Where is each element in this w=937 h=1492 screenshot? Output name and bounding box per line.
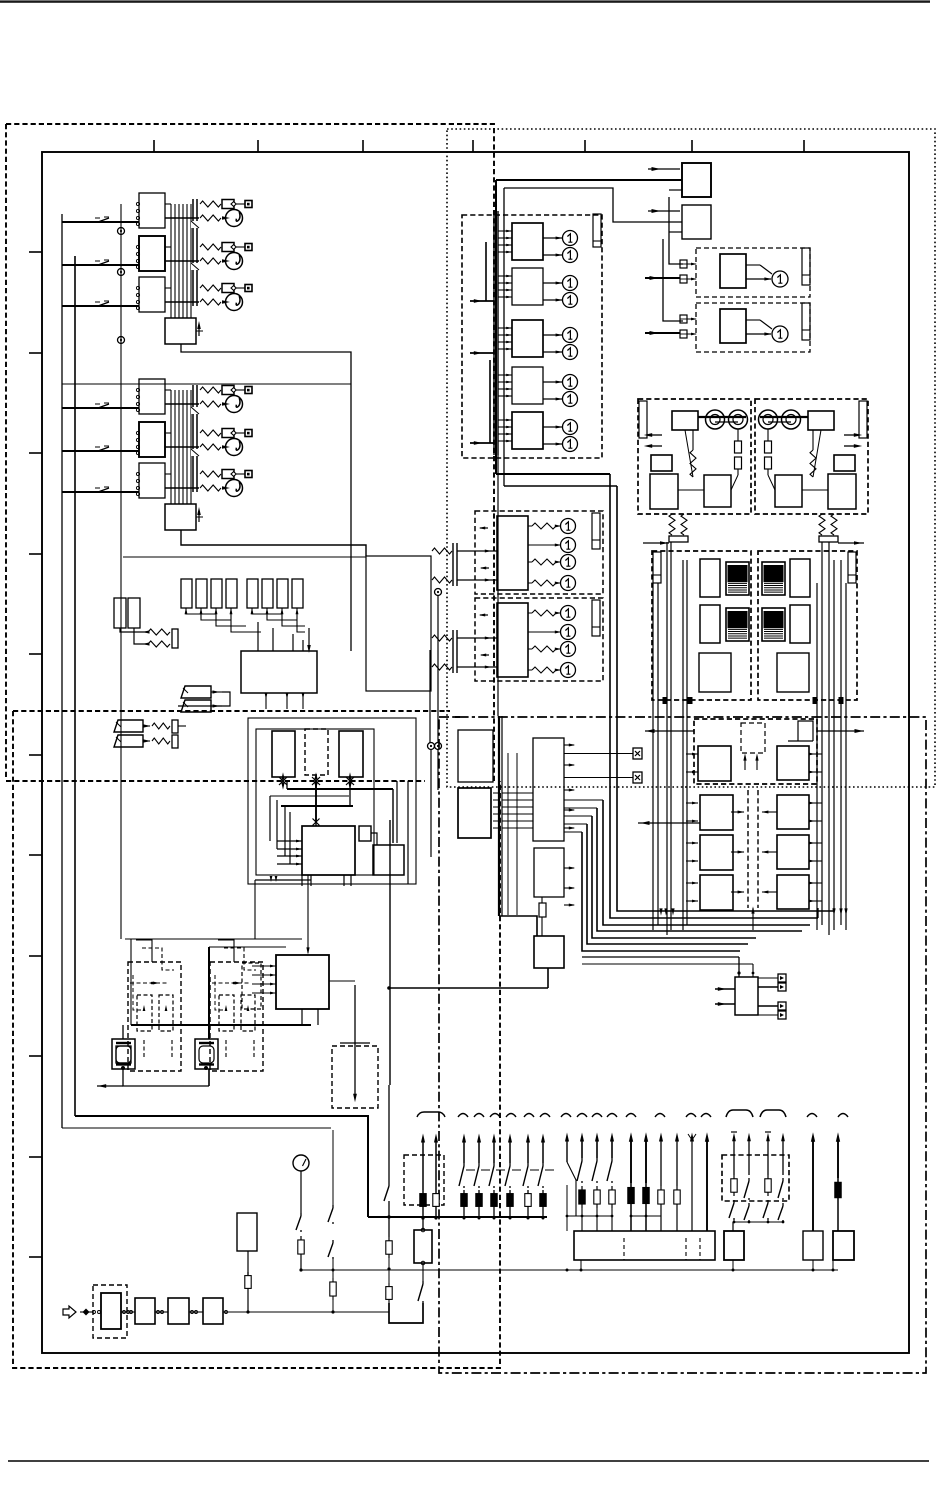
aux block risers [737,971,740,974]
feeder verticals right group [816,583,818,930]
weave junction marks [279,777,287,785]
comm indicator [772,326,788,342]
pointer arrow [198,511,200,522]
aux rect pair [114,598,126,628]
relay driver block row2 [139,422,165,457]
metering indicators [561,519,576,534]
panel meter row2 [226,253,243,270]
center out arrows [564,744,574,746]
terminal square row3 [245,471,252,478]
aux box 3 [803,1231,823,1260]
main return wire [389,987,548,989]
center block feeds [493,792,499,794]
aux resistor feeds [148,629,170,635]
fused switch column x567 [566,1140,568,1162]
arrow feed B [648,210,680,212]
meter resistor row2 [200,444,221,450]
metering input bars [452,543,454,586]
pointer arrow [198,325,200,336]
sweep tail lines [582,956,739,958]
motor field winding row1 [726,562,749,595]
aux box 4 [833,1231,854,1260]
relay logic dashed cluster [210,962,263,1071]
meter resistor row1 [200,401,221,407]
relay coil box row2 [222,429,234,438]
meter resistor row2 [200,258,221,264]
border tick marks left [29,251,42,253]
center block A [458,788,491,838]
relay driver block row3 [139,277,165,312]
plain column x692 [691,1140,693,1231]
metering terminal strip [592,600,600,636]
feed wire with contact row2 [62,264,139,266]
trunk riser [495,180,497,474]
panel meter row3 [226,480,243,497]
horn speaker pair upper [181,686,211,698]
motor field winding row1 [762,562,785,595]
left rail junction circles [118,228,125,235]
aux small box [651,455,672,471]
fuse elements [737,429,739,441]
aux small box [834,455,855,471]
interface block 1 [512,223,543,260]
sweep risers [833,908,835,911]
drop zigzag pair left [669,514,675,535]
pair axis arrows row3 [731,851,744,853]
interface indicators 3 [563,328,578,343]
comm terminal strip [802,303,810,340]
ladder chain 2 [332,1130,334,1205]
bus continuity run [497,455,499,716]
pair block right row2 [777,795,809,829]
chain-line enclosure (lower-right system) [439,717,926,1373]
contact bank rectangles [181,579,192,608]
metering block [497,603,528,677]
relay coil box row3 [222,284,234,293]
horn feed wires [178,692,230,706]
fused switch column x612 [611,1140,613,1158]
big spare enclosure [366,556,431,691]
bottom page rule [8,1460,929,1462]
dashed breaker box [404,1155,444,1205]
center resistor [539,903,546,917]
aux connectors [778,974,786,982]
panel meter row2 [226,439,243,456]
interface left stubs [485,242,487,301]
relay driver block row3 [139,463,165,498]
pair block left row1 [698,746,731,781]
master box B [682,205,711,239]
return arrow [97,1085,123,1087]
converter dashed box [638,399,751,514]
annunciator resistor row1a [200,387,221,393]
motor armature block row1 [700,559,720,597]
drop link bar right [819,536,838,542]
annunciator resistor row3a [200,471,221,477]
motor terminal strip [653,552,661,583]
pair block right row4 [777,875,809,909]
panel meter row1 [226,210,243,227]
down arrow into logic block [308,628,310,648]
second trunk [504,188,682,222]
long collector wire lower [301,1269,838,1271]
motor control block [777,653,809,692]
trunk wire to A [496,179,682,181]
annunciator resistor row3a [200,285,221,291]
junction circle pair [428,743,435,750]
annunciator resistor row2a [200,244,221,250]
comm feed arrow [645,277,680,279]
panel meter row3 [226,294,243,311]
comm feed arrow [645,332,680,334]
arrow drop into lower block [307,875,309,953]
metering flags [480,527,488,529]
relay coil box row1 [222,386,234,395]
interface indicators 5 [563,420,578,435]
sequencer block [276,955,329,1009]
comm terminal strip [802,248,810,285]
feeder arrow left [643,542,669,544]
surge resistor [810,450,816,477]
bus sweep bundle [617,486,834,911]
fused switch column x597 [596,1140,598,1158]
drop zigzag pair right [819,514,825,535]
feed wire with contact row1 [62,407,139,409]
filter block 2 [135,1298,155,1324]
comm dashed box [696,303,810,352]
left supply rail 2 [74,256,76,1116]
terminal strip column [192,385,194,492]
arc bracket 1 [726,1110,753,1117]
heavy feed elbow [75,1116,368,1217]
pair block left row4 [700,875,733,910]
interface block feeds 2 [498,275,512,277]
annunciator resistor row1a [200,201,221,207]
out arrows [648,434,662,436]
weave outer enclosure [248,718,416,884]
monitor feed trunk [208,947,210,1039]
output wires [165,473,171,475]
row feed stubs right [809,753,822,755]
drop link bar left [669,536,688,542]
annunciator resistor row2a [200,430,221,436]
terminal square row3 [245,285,252,292]
monitor drop 1 [122,1025,124,1039]
pocket drop arrow [354,1046,356,1098]
block feed verticals [257,622,259,651]
filter block 3 [168,1298,189,1324]
aux box 2 [724,1231,744,1260]
battery block [414,1230,432,1263]
crt monitor 1 [112,1039,135,1069]
pair block right row3 [777,835,809,869]
comm block [720,309,746,343]
mid bus bar [368,1216,547,1218]
motor control block [699,653,731,692]
long center drop wire [389,820,391,1085]
metering dashed box [475,598,603,681]
interface block feeds 3 [498,327,512,329]
output wires [165,287,171,289]
relay driver block row1 [139,193,165,228]
interface входные arrows [470,300,494,302]
weave to control wires [315,822,317,826]
sequencer to pocket wire [329,980,355,982]
logic block bottom pins [265,693,267,709]
terminal square row2 [245,430,252,437]
sequencer input stubs [252,965,276,967]
converter control box [808,411,834,430]
ladder chain 3 (main drop) [388,1085,390,1183]
interface block 3 [512,320,543,357]
traction motor dashed box [758,551,857,700]
metering dashed box [475,511,603,594]
sequencer side dashed rect [242,963,261,1009]
comm connectors [680,260,687,268]
motor field winding row2 [762,608,785,641]
motor field winding row2 [726,608,749,641]
fuse column x661 [660,1140,662,1186]
converter block 2 [704,475,731,507]
center block D [534,936,564,968]
chain output wire [248,1311,355,1313]
east arrow row1 [817,730,864,732]
interface block feeds 5 [498,419,512,421]
top page rule bar [0,0,930,2]
converter block 1 [650,474,678,509]
comm connectors [680,315,687,323]
inner diagonal links [685,430,693,477]
surge resistor [690,450,696,477]
ballast drop with fuse [247,1251,249,1275]
arc bracket 2 [760,1110,786,1117]
phase block B (dashed) [305,729,328,775]
comm block [720,254,746,288]
interface indicators 1 [563,231,578,246]
feed wire with contact row3 [62,491,139,493]
west arrow row1 [645,730,694,732]
horn speaker pair lower [114,720,143,732]
input open arrow [63,1306,76,1318]
pair block right row1 [777,746,809,780]
pair row dashed box [694,719,817,784]
dashed switch box right [722,1155,789,1201]
dashed enclosure B (lower-left system) [13,711,500,1368]
relay sub block [165,504,196,530]
plain column x707 [706,1140,708,1231]
converter dashed box [755,399,868,514]
converter block 1 [828,474,856,509]
meter resistor row1 [200,215,221,221]
phase block A [272,731,295,777]
output wires [165,246,171,248]
control block main [302,826,355,875]
converter terminal strip [639,401,647,438]
input node diamond [83,1309,90,1316]
pair block left row2 [700,795,733,830]
dotted enclosure (upper-right system) [447,129,935,787]
terminal square row1 [245,387,252,394]
phase block C [339,731,363,777]
metering flags [480,614,488,616]
clock drop chain [300,1171,302,1213]
converter control box [672,411,698,430]
dashed enclosure A (upper-left system) [6,124,494,781]
solid drawing border [42,152,909,1353]
dashed pocket box [332,1046,378,1108]
interface block 2 [512,268,543,305]
pair axis dashed verticals [747,790,749,908]
interface block feeds 4 [498,374,512,376]
control side block [373,845,404,875]
interface block feeds 1 [498,230,512,232]
trunk cross runs [496,473,610,475]
crt monitor 2 [195,1039,218,1069]
aux feed arrows [715,988,735,990]
collector wire 1312 [226,1311,389,1313]
converter terminal strip [859,401,867,438]
metering terminal strip [592,513,600,549]
left supply rail 1 [61,214,63,1128]
motor terminal strip [848,552,856,583]
chain link wire [121,1311,135,1313]
terminal square row2 [245,244,252,251]
relay group output bus [170,204,172,318]
metering block [497,516,528,590]
arc break row [458,1114,468,1118]
metering input resistors [432,635,452,641]
master box A [682,163,711,197]
pair row arrows up [744,756,746,770]
arrow feed A [648,168,680,170]
logic block main [241,651,317,693]
border tick marks top [153,140,155,152]
filter block dashed enclosure [93,1285,127,1338]
fuse column x677 [676,1140,678,1186]
meter resistor row3 [200,485,221,491]
breaker columns inner [422,1140,424,1190]
panel meter row1 [226,396,243,413]
center bus pair [498,716,500,916]
relay coil box row2 [222,243,234,252]
aux control block [735,977,758,1015]
sweep entry stubs [564,799,603,801]
arc bracket small left [417,1112,445,1117]
output wires [165,432,171,434]
weave cross wiring [287,788,393,790]
contact bank drop wires [186,608,216,614]
inner diagonal links [813,430,821,477]
motor armature block row1 [790,559,810,597]
cross tie y557 [123,556,366,558]
switch columns group1 [463,1140,465,1163]
row feed stubs left [686,753,698,755]
output wires [165,389,171,391]
fuse elements [767,429,769,441]
heavy fuse column x646 [645,1140,647,1183]
motor armature block row2 [790,605,810,643]
terminal square row1 [245,201,252,208]
left sense rail [120,204,122,939]
clock meter [293,1155,309,1171]
interface block 4 [512,367,543,404]
relay coil box row3 [222,470,234,479]
pair axis arrows row4 [731,891,744,893]
motor armature block row2 [700,605,720,643]
group2 sub-block output run [181,530,366,556]
pair block left row3 [700,835,733,870]
pair axis arrows row2 [731,811,744,813]
west arrow row2 [638,822,700,824]
relay coil box row1 [222,200,234,209]
center tall block B [533,738,564,841]
group1 sub-block output run [181,344,351,651]
pair notch rect [798,721,813,741]
box B drop wire [663,239,683,321]
sequencer drop stubs [301,1009,303,1025]
plain column x813 [812,1140,814,1231]
pair inner dashed rect [741,723,765,753]
center inner verticals [507,753,509,915]
feeder verticals left group [652,583,654,930]
junction circle mid [435,589,442,596]
ladder elbow to battery [389,1303,423,1323]
interface bus verticals [493,211,495,455]
relay driver block row1 [139,379,165,414]
feed wire with contact row1 [62,221,139,223]
control block bottom stubs [301,875,303,886]
interface terminal strip [593,214,601,247]
feeder arrow right [838,542,864,544]
monitor bus wire [131,1024,311,1026]
collector stubs [580,1260,582,1270]
interface indicators 2 [563,276,578,291]
heavy fuse column x631 [630,1140,632,1183]
feed wire with contact row3 [62,305,139,307]
fused switch column x582 [581,1140,583,1158]
relay group output bus [170,390,172,504]
feeder end arrows [659,908,662,915]
traction motor dashed box [652,551,751,700]
monitor return wire [123,1069,209,1086]
interface indicators 4 [563,375,578,390]
fused column x838 [837,1140,839,1178]
interface block 5 [512,412,543,449]
output wires [165,203,171,205]
weave inner enclosure [256,729,374,875]
switch columns group2 [509,1140,511,1163]
center block C [534,848,564,897]
ballast rect [237,1213,257,1251]
filter block 4 [203,1298,223,1324]
out arrows [844,434,858,436]
metering input bars [452,630,454,673]
interface dashed enclosure [462,215,602,458]
motor box bottom connectors [663,697,668,704]
comm dashed box [696,248,810,297]
metering input resistors [432,548,452,554]
relay logic dashed cluster [128,962,181,1071]
comm indicator [772,271,788,287]
relay driver block row2 [139,236,165,271]
transformer circles [706,410,725,429]
converter block 2 [775,475,802,507]
mid vertical wires [429,650,431,743]
metering indicators [561,606,576,621]
relay sub block [165,318,196,344]
terminal strip column [192,199,194,306]
control aux box [359,826,371,841]
